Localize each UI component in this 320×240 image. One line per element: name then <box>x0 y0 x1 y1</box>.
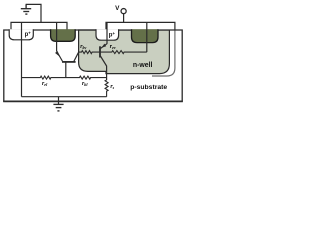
resistor r_ev <box>101 51 147 54</box>
emitter diagonal with arrow <box>101 44 107 49</box>
resistor r_s (vertical) <box>105 80 108 97</box>
emitter with arrow <box>57 51 63 62</box>
V terminal wire <box>123 14 125 23</box>
svg-text:V: V <box>115 5 120 12</box>
ground contact box (VSS metal) <box>11 22 67 30</box>
svg-text:rbv: rbv <box>80 44 86 50</box>
collector diagonal <box>100 56 106 66</box>
resistor r_bv <box>79 51 100 54</box>
base bar <box>99 46 101 57</box>
n-well outer boundary line <box>152 23 175 76</box>
p+ diffusion left <box>9 29 33 40</box>
p-substrate box <box>4 30 182 101</box>
V terminal circle <box>121 9 126 14</box>
bottom ground symbol <box>53 104 63 111</box>
npn transistor Q1 (lateral) <box>55 51 79 78</box>
svg-text:p-substrate: p-substrate <box>130 84 167 91</box>
svg-text:n-well: n-well <box>133 62 153 69</box>
wire n+ right tap down to r_ev <box>146 22 148 52</box>
base bar <box>62 61 76 63</box>
wire pnp collector down <box>106 66 108 80</box>
svg-text:rbl: rbl <box>82 81 88 87</box>
svg-text:rel: rel <box>42 81 48 87</box>
emitter wire from p+ <box>106 22 108 44</box>
n+ diffusion in n-well <box>132 29 159 42</box>
svg-text:rev: rev <box>110 44 116 50</box>
n+ diffusion left <box>51 29 76 41</box>
p+ diffusion in n-well <box>96 29 119 40</box>
base lead down <box>65 62 67 78</box>
wire VSS to n+ left (npn emitter) <box>56 22 58 51</box>
p-substrate bottom edge (thick) <box>3 100 183 102</box>
V contact box (VDD metal) <box>106 22 175 30</box>
svg-text:rs: rs <box>110 84 114 90</box>
bottom ground stub <box>58 97 60 105</box>
top ground wire <box>26 4 41 22</box>
n-well region <box>79 30 170 74</box>
rail A with r_el and r_bl <box>22 76 107 79</box>
collector <box>74 52 79 61</box>
wire VSS to p+ left, down to rails <box>21 22 23 96</box>
pnp transistor Q2 (vertical) <box>100 22 107 66</box>
top ground symbol <box>21 4 31 14</box>
rail B (bottom wire) <box>22 96 107 98</box>
